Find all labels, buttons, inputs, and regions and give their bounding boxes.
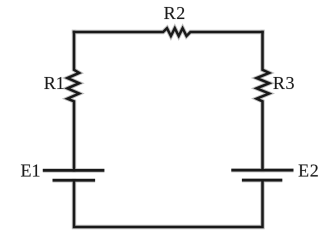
svg-text:E1: E1 [21,160,41,180]
svg-text:E2: E2 [298,161,319,181]
svg-text:R2: R2 [164,3,186,23]
svg-text:R3: R3 [273,73,295,93]
svg-text:R1: R1 [44,73,65,93]
